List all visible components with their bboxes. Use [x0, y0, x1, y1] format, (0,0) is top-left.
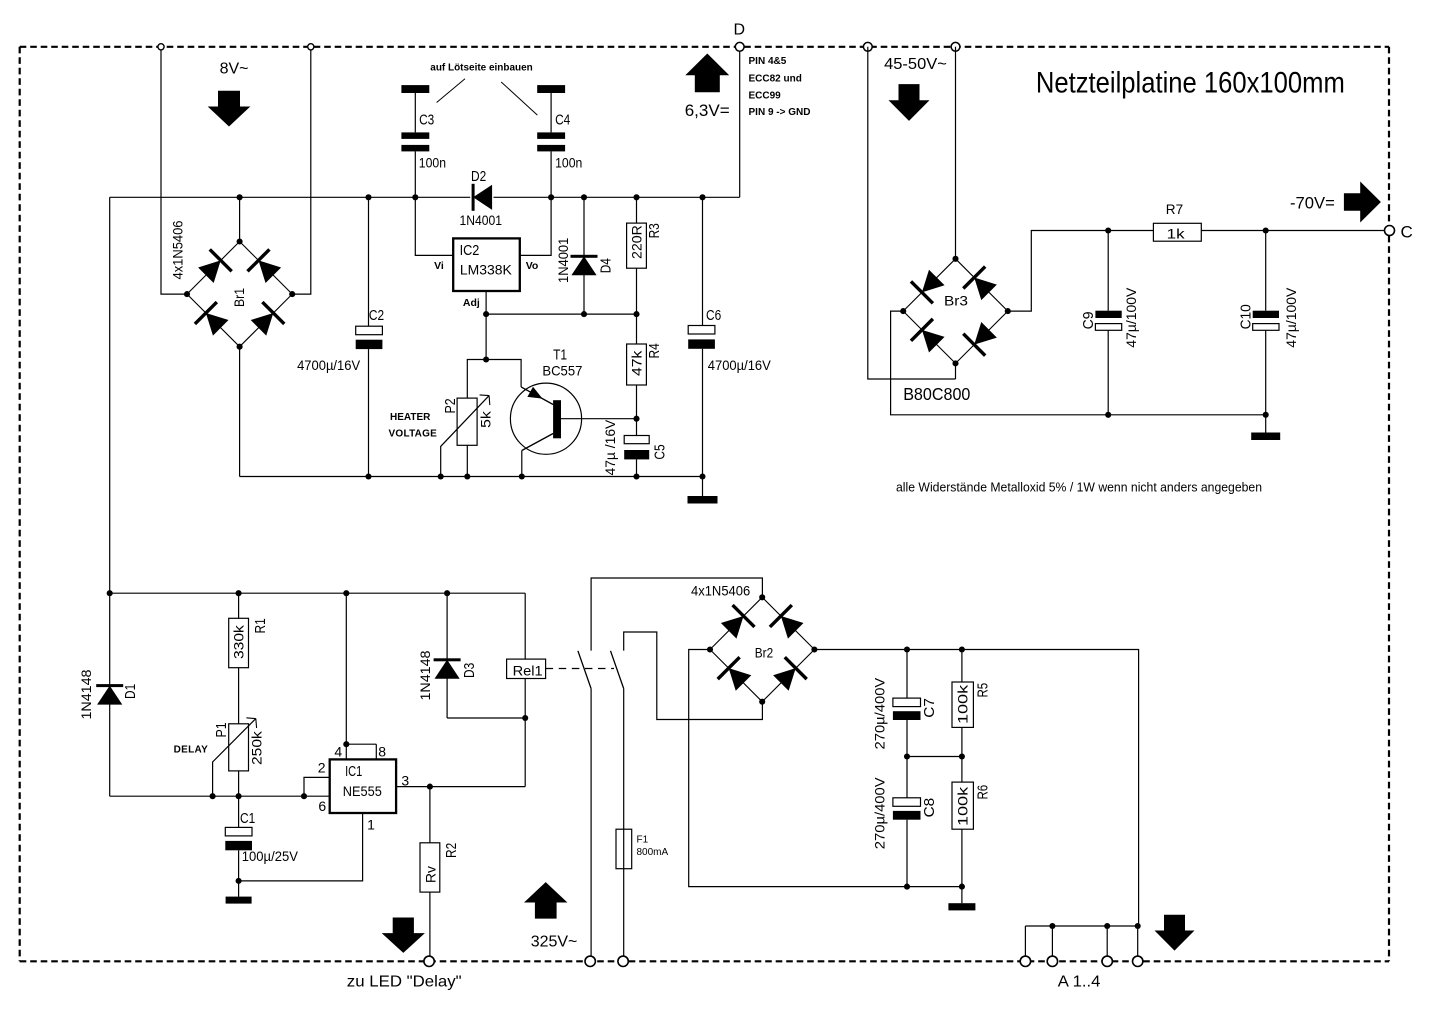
svg-text:P2: P2 [443, 398, 459, 413]
svg-text:4700µ/16V: 4700µ/16V [708, 357, 772, 373]
label C6 [706, 308, 721, 324]
wire top-section ground rail [240, 476, 703, 478]
label C3 value 100n [419, 155, 446, 171]
label C9 value 47µ/100V rotated [1123, 287, 1139, 348]
svg-text:Netzteilplatine 160x100mm: Netzteilplatine 160x100mm [1036, 67, 1345, 100]
label R1 rotated [253, 618, 269, 633]
label Br1 [231, 288, 247, 307]
note PIN 4&5 [749, 56, 787, 67]
label R6 rotated [976, 785, 992, 800]
svg-text:R1: R1 [253, 618, 269, 633]
svg-text:6: 6 [318, 798, 326, 814]
wire Br3 left node to bottom rail [891, 311, 1266, 415]
svg-text:B80C800: B80C800 [903, 384, 970, 404]
svg-text:270µ/400V: 270µ/400V [872, 777, 888, 849]
wire Br3 bottom node stub [955, 363, 957, 379]
label T1 type BC557 [542, 363, 582, 379]
switch contact A of Rel1 [578, 651, 591, 689]
svg-text:8: 8 [378, 744, 386, 760]
wire switch contact B bottom through fuse to terminal [623, 689, 625, 956]
label A 1..4 [1058, 974, 1101, 991]
label D2 [471, 169, 486, 185]
svg-text:R3: R3 [647, 223, 663, 238]
wire Br2 right node to output net [814, 650, 1138, 927]
svg-text:6,3V=: 6,3V= [685, 101, 730, 120]
svg-text:4x1N5406: 4x1N5406 [691, 583, 750, 599]
label R3 value 220R rotated [628, 225, 644, 259]
svg-text:D2: D2 [471, 169, 486, 185]
label F1 [637, 835, 649, 846]
node 325V terminal right [618, 956, 628, 966]
svg-text:8V~: 8V~ [220, 61, 249, 78]
label D2 value 1N4001 [460, 212, 503, 228]
note PIN 9 -> GND [749, 107, 811, 118]
note DELAY [174, 745, 209, 756]
svg-text:D4: D4 [599, 258, 615, 273]
note alle Widerstände Metalloxid [896, 480, 1262, 495]
svg-text:47k: 47k [628, 350, 644, 376]
label 325V~ [531, 934, 578, 951]
svg-text:NE555: NE555 [343, 783, 382, 799]
resistor R1 330k [229, 590, 249, 724]
svg-text:47µ/100V: 47µ/100V [1123, 287, 1139, 348]
label zu LED "Delay" [347, 974, 462, 991]
label -70V= [1290, 195, 1335, 213]
label D1 value 1N4148 rotated [78, 669, 94, 719]
svg-text:PIN 9 -> GND: PIN 9 -> GND [749, 107, 811, 118]
label P2 rotated [443, 398, 459, 413]
wire 8V~ feed right from border to Br1 right node [292, 47, 311, 294]
regulator IC2 LM338K [453, 238, 520, 291]
note HEATER [390, 412, 431, 423]
svg-text:ECC82 und: ECC82 und [749, 74, 802, 85]
wire Vi from rail to IC2 [415, 197, 453, 255]
label C1 value 100µ/25V [242, 848, 299, 864]
label R5 rotated [976, 683, 992, 698]
ground symbol below C1 [226, 881, 252, 904]
label C5 rotated [653, 444, 669, 459]
node 325V terminal left [585, 956, 595, 966]
relay coil Rel1 [507, 593, 546, 786]
label D3 rotated [462, 663, 478, 678]
label R3 rotated [647, 223, 663, 238]
svg-text:1N4148: 1N4148 [417, 650, 433, 700]
wire switch contact A top to Br2 top [591, 578, 762, 651]
label C10 rotated [1239, 304, 1255, 329]
note VOLTAGE [389, 429, 438, 440]
label D4 value 1N4001 rotated [555, 238, 571, 283]
arrow 6.3V up [685, 54, 729, 93]
svg-text:330k: 330k [230, 624, 246, 659]
label C4 [555, 112, 570, 128]
svg-text:C3: C3 [419, 113, 434, 129]
resistor R3 220R [627, 194, 647, 314]
svg-text:Vi: Vi [434, 260, 444, 272]
wire left long vertical to lower section [109, 197, 111, 593]
svg-text:C10: C10 [1239, 304, 1255, 329]
svg-text:Adj: Adj [463, 297, 480, 309]
svg-text:R4: R4 [647, 343, 663, 358]
label Br3 type B80C800 [903, 384, 970, 404]
svg-text:100k: 100k [955, 684, 971, 724]
capacitor C1 100µ/25V [225, 796, 252, 884]
svg-text:100n: 100n [419, 155, 446, 171]
label P1 value 250k rotated [248, 730, 264, 765]
note ECC82 und [749, 74, 802, 85]
svg-text:LM338K: LM338K [460, 262, 513, 278]
svg-text:R6: R6 [976, 785, 992, 800]
label C5 value 47µ /16V rotated [602, 419, 618, 475]
node C terminal [1385, 226, 1395, 236]
svg-text:1N4001: 1N4001 [555, 238, 571, 283]
svg-text:C: C [1401, 223, 1413, 242]
diode D3 1N4148 [434, 590, 529, 721]
label C9 rotated [1081, 312, 1097, 330]
timer IC1 NE555 [330, 759, 396, 813]
label P2 value 5k rotated [478, 410, 494, 428]
svg-text:1: 1 [367, 817, 375, 833]
capacitor C7 270µ/400V [893, 646, 921, 759]
label R4 value 47k rotated [628, 350, 644, 376]
wire IC1 pin2 branch [301, 777, 330, 799]
svg-text:P1: P1 [214, 722, 230, 737]
svg-text:Br2: Br2 [755, 645, 774, 661]
wire 45-50V right feed to Br3 top [955, 47, 957, 259]
pin label 2 [318, 760, 326, 776]
wire T1 collector down to ground rail [519, 451, 525, 480]
diode D2 inline on rail [472, 184, 493, 211]
svg-text:1N4148: 1N4148 [78, 669, 94, 719]
capacitor C6 4700µ/16V electrolytic [688, 194, 715, 479]
svg-text:VOLTAGE: VOLTAGE [389, 429, 438, 440]
resistor R2 Rv [420, 787, 440, 957]
arrow 45-50V input down [889, 84, 930, 121]
ground symbol top section [688, 477, 718, 504]
wire switch contact B top to Br2 bottom [624, 632, 763, 720]
capacitor C3 100n with solder-side pad [401, 85, 429, 200]
capacitor C2 electrolytic [356, 194, 383, 479]
node 45-50V~ terminal left [863, 42, 872, 51]
label C8 rotated [922, 798, 938, 818]
svg-text:alle Widerstände Metalloxid 5%: alle Widerstände Metalloxid 5% / 1W wenn… [896, 480, 1262, 495]
label C8 value 270µ/400V rotated [872, 777, 888, 849]
transistor T1 BC557 [510, 383, 581, 454]
wire R7 to node C output [1201, 230, 1389, 232]
capacitor C8 270µ/400V [893, 757, 921, 890]
label 8V~ [220, 61, 249, 78]
svg-text:100k: 100k [955, 786, 971, 826]
potentiometer P1 250k [210, 718, 257, 799]
pin label 3 [401, 773, 409, 789]
label D1 rotated [123, 684, 139, 699]
svg-text:T1: T1 [553, 348, 567, 364]
svg-text:-70V=: -70V= [1290, 195, 1335, 213]
node D terminal [735, 42, 744, 51]
label D4 rotated [599, 258, 615, 273]
svg-text:DELAY: DELAY [174, 745, 209, 756]
label R6 value 100k rotated [955, 786, 971, 826]
wire Br1 top node to rail [237, 194, 243, 241]
svg-text:auf Lötseite einbauen: auf Lötseite einbauen [430, 63, 532, 74]
svg-text:100µ/25V: 100µ/25V [242, 848, 299, 864]
svg-text:2: 2 [318, 760, 326, 776]
svg-text:F1: F1 [637, 835, 649, 846]
svg-text:325V~: 325V~ [531, 934, 578, 951]
label C1 [240, 811, 255, 827]
node terminal to LED Delay [424, 956, 434, 966]
pin label Adj [463, 297, 480, 309]
pin label 1 [367, 817, 375, 833]
svg-text:Rv: Rv [423, 866, 439, 883]
svg-text:A 1..4: A 1..4 [1058, 974, 1101, 991]
label C3 [419, 113, 434, 129]
svg-text:47µ/100V: 47µ/100V [1283, 287, 1299, 348]
wire 8V~ feed left from border to Br1 left node [161, 47, 187, 294]
svg-text:C1: C1 [240, 811, 255, 827]
svg-text:220R: 220R [628, 225, 644, 259]
node terminal A1 [1020, 956, 1030, 966]
label C2 value 4700µ/16V [297, 357, 361, 373]
label C7 value 270µ/400V rotated [872, 677, 888, 749]
wire D node 6.3V output [739, 47, 741, 198]
pin label 8 [378, 744, 386, 760]
node terminal A2 [1047, 956, 1057, 966]
svg-text:BC557: BC557 [542, 363, 582, 379]
note auf Lötseite einbauen with pointer lines [430, 63, 537, 116]
label 45-50V~ [884, 56, 947, 73]
wire lower section supply rail [107, 590, 526, 596]
note ECC99 [749, 90, 782, 101]
resistor R5 100k [952, 646, 973, 756]
svg-text:C7: C7 [922, 698, 938, 718]
svg-text:Br1: Br1 [231, 288, 247, 307]
svg-text:C9: C9 [1081, 312, 1097, 330]
label Br1 type 4x1N5406 [170, 220, 186, 279]
svg-text:R7: R7 [1166, 202, 1183, 217]
bridge rectifier Br2 [707, 594, 818, 705]
bridge rectifier Br1 [184, 238, 295, 349]
label Br2 [755, 645, 774, 661]
wire lower bottom rail to IC1 pin6 [110, 795, 330, 797]
svg-text:C4: C4 [555, 112, 570, 128]
svg-text:IC2: IC2 [460, 243, 480, 259]
svg-text:PIN 4&5: PIN 4&5 [749, 56, 787, 67]
svg-text:C6: C6 [706, 308, 721, 324]
svg-text:R2: R2 [444, 843, 460, 858]
label R2 rotated [444, 843, 460, 858]
capacitor C10 47µ/100V [1253, 227, 1279, 417]
svg-text:zu LED "Delay": zu LED "Delay" [347, 974, 462, 991]
svg-text:270µ/400V: 270µ/400V [872, 677, 888, 749]
potentiometer P2 5k [438, 360, 490, 480]
wire IC1 pins 4 and 8 to supply rail [343, 590, 376, 759]
wire main positive rail top [110, 196, 740, 198]
svg-text:R5: R5 [976, 683, 992, 698]
svg-text:100n: 100n [555, 155, 582, 171]
label C7 rotated [922, 698, 938, 718]
bridge rectifier Br3 [900, 256, 1011, 367]
svg-text:1k: 1k [1167, 227, 1185, 242]
svg-text:Br3: Br3 [944, 293, 968, 309]
svg-text:4x1N5406: 4x1N5406 [170, 220, 186, 279]
resistor R6 100k [952, 757, 973, 890]
label P1 rotated [214, 722, 230, 737]
node terminal A4 [1133, 956, 1143, 966]
resistor R7 1k [1153, 223, 1201, 241]
wire T1 base to R4/C5 node [561, 416, 640, 422]
label C [1401, 223, 1413, 242]
capacitor C9 47µ/100V [1095, 227, 1121, 417]
svg-text:5k: 5k [478, 410, 494, 428]
arrow -70V output right [1344, 182, 1381, 223]
arrow anode outputs down [1155, 915, 1195, 951]
svg-text:47µ /16V: 47µ /16V [602, 419, 618, 475]
ground symbol below C10 [1251, 415, 1280, 440]
svg-text:C5: C5 [653, 444, 669, 459]
node 45-50V~ terminal right [951, 42, 960, 51]
svg-text:3: 3 [401, 773, 409, 789]
resistor R4 47k [627, 314, 647, 419]
svg-text:IC1: IC1 [345, 764, 362, 780]
wire relay actuation dashed link [546, 668, 614, 670]
wire Vo from IC2 to C4 branch [520, 197, 551, 255]
label R7 [1166, 202, 1183, 217]
svg-text:C8: C8 [922, 798, 938, 818]
label F1 value 800mA [637, 847, 669, 858]
pin label 4 [334, 744, 342, 760]
label D3 value 1N4148 rotated [417, 650, 433, 700]
wire IC2 Adj pin down and Adj net rail [483, 291, 639, 360]
arrow 325V up [524, 882, 567, 919]
node 8V~ terminal right [308, 44, 314, 50]
capacitor C4 100n with solder-side pad [537, 85, 565, 200]
label C4 value 100n [555, 155, 582, 171]
label R4 rotated [647, 343, 663, 358]
svg-text:4: 4 [334, 744, 342, 760]
wire Br2 left node loop to bottom rail [689, 650, 962, 887]
pin label Vo [526, 260, 539, 272]
svg-text:250k: 250k [248, 730, 264, 765]
arrow 8V~ input down [208, 91, 251, 127]
wire C7/C8 midpoint rail [907, 753, 965, 759]
ground symbol below R6 [948, 887, 975, 911]
node 8V~ terminal left [158, 44, 164, 50]
node terminal A3 [1102, 956, 1112, 966]
svg-text:1N4001: 1N4001 [460, 212, 503, 228]
wire output bus to terminals A1-4 [1025, 923, 1140, 956]
label C10 value 47µ/100V rotated [1283, 287, 1299, 348]
label Br3 [944, 293, 968, 309]
label Br2 type 4x1N5406 [691, 583, 750, 599]
switch contact B of Rel1 [611, 651, 624, 689]
label R5 value 100k rotated [955, 684, 971, 724]
wire IC1 pin1 to C1 ground node [239, 813, 363, 881]
fuse F1 800mA [616, 829, 632, 869]
label 6,3V= [685, 101, 730, 120]
wire IC1 pin3 output to relay net [396, 784, 525, 790]
svg-text:Rel1: Rel1 [513, 663, 543, 679]
svg-text:4700µ/16V: 4700µ/16V [297, 357, 361, 373]
svg-text:D: D [734, 22, 746, 39]
label R2 value Rv rotated [423, 866, 439, 883]
svg-text:45-50V~: 45-50V~ [884, 56, 947, 73]
wire 45-50V left feed to Br3 bottom [868, 47, 956, 379]
label D [734, 22, 746, 39]
label C6 value 4700µ/16V [708, 357, 772, 373]
diode D1 1N4148 [96, 593, 123, 796]
svg-text:D1: D1 [123, 684, 139, 699]
wire Br3 right node up to R7 net [1008, 231, 1154, 312]
capacitor C5 47µ/16V [624, 419, 649, 480]
svg-text:ECC99: ECC99 [749, 90, 782, 101]
arrow to LED down [382, 918, 425, 953]
pin label 6 [318, 798, 326, 814]
svg-text:Vo: Vo [526, 260, 539, 272]
wire Br1 bottom node to ground rail [239, 347, 241, 477]
wire T1 emitter up to Adj node [483, 356, 521, 386]
pin label Vi [434, 260, 444, 272]
label T1 [553, 348, 567, 364]
label R1 value 330k rotated [230, 624, 246, 659]
title Netzteilplatine 160x100mm [1036, 67, 1345, 100]
diode D4 1N4001 from rail to Adj net [571, 194, 598, 314]
label C2 [369, 308, 384, 324]
svg-text:HEATER: HEATER [390, 412, 431, 423]
svg-text:800mA: 800mA [637, 847, 669, 858]
svg-text:C2: C2 [369, 308, 384, 324]
svg-text:D3: D3 [462, 663, 478, 678]
wire switch contact A bottom to terminal [590, 689, 592, 956]
